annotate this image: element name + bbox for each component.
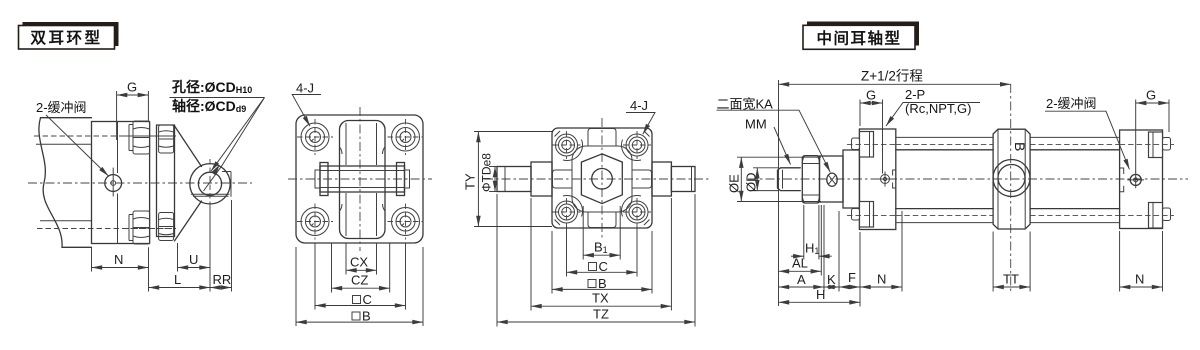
horizontal centerline xyxy=(484,178,710,180)
svg-text:B: B xyxy=(598,276,607,291)
KA leader xyxy=(717,110,831,172)
tie rod centerline over nuts bottom xyxy=(124,228,176,230)
rod nut MM xyxy=(802,156,819,203)
pin stub left xyxy=(315,170,320,188)
rod thread line xyxy=(782,170,784,189)
bolt hole bottom-right xyxy=(388,204,424,240)
svg-text:C: C xyxy=(599,259,608,274)
vertical centerline xyxy=(359,107,361,251)
tube inner line bottom xyxy=(40,220,92,222)
cylinder tube broken end xyxy=(39,118,62,248)
svg-text:二面宽KA: 二面宽KA xyxy=(717,97,774,112)
clevis plate xyxy=(157,125,175,237)
trunnion pin right xyxy=(671,167,695,192)
svg-text:中间耳轴型: 中间耳轴型 xyxy=(816,28,901,47)
svg-text:G: G xyxy=(1146,88,1156,103)
bolt hole top-left xyxy=(297,119,333,155)
clevis taper top xyxy=(175,126,202,167)
tube bottom edge xyxy=(62,246,92,248)
leader 4-J to bolt xyxy=(292,95,321,127)
bolt top-left xyxy=(553,131,581,159)
square head plate xyxy=(552,128,652,228)
title box shadow (double clevis) xyxy=(23,22,119,46)
svg-text:H1: H1 xyxy=(805,241,819,257)
dimension A xyxy=(779,205,825,292)
dimension N (cap side) xyxy=(1120,231,1163,292)
main centerline xyxy=(28,182,252,184)
svg-text:G: G xyxy=(866,88,876,103)
svg-text:轴径:ØCDd9: 轴径:ØCDd9 xyxy=(172,98,246,114)
bolt hole bottom-left xyxy=(297,204,333,240)
MM leader xyxy=(774,127,791,165)
svg-text:(Rc,NPT,G): (Rc,NPT,G) xyxy=(905,101,971,116)
dimension TT xyxy=(993,232,1030,292)
rod nut hexagon xyxy=(581,154,622,204)
tie rod nut column2 bottom xyxy=(159,213,174,241)
leader to pin hole xyxy=(211,98,265,172)
cushion valve inner xyxy=(111,181,116,186)
head block inner edge xyxy=(117,122,119,244)
title box shadow (center trunnion) xyxy=(807,22,919,46)
dimension ΦTDe8 xyxy=(480,153,506,192)
scallop arc top-left xyxy=(563,140,583,161)
dimension G xyxy=(117,80,149,141)
tie rod nut (rod head top) xyxy=(852,132,874,158)
tube inner line top xyxy=(36,143,92,145)
trunnion boss left xyxy=(531,162,552,196)
trunnion boss right xyxy=(652,162,671,196)
gland boss plate xyxy=(820,156,844,202)
tie rod nut column1 bottom xyxy=(129,211,150,244)
svg-text:A: A xyxy=(797,272,806,287)
intermediate plate xyxy=(843,150,860,208)
tie rod nut column2 top xyxy=(159,125,174,153)
2-P leader xyxy=(886,103,980,127)
tie rod centerline bottom xyxy=(37,228,174,230)
svg-text:4-J: 4-J xyxy=(296,81,314,96)
dimension AL xyxy=(779,205,822,276)
pin vertical centerline xyxy=(209,159,211,209)
title box (double clevis) xyxy=(19,26,115,50)
cap head cushion valve xyxy=(1127,172,1144,189)
svg-text:2-P: 2-P xyxy=(905,87,925,102)
cap head face notches xyxy=(1120,168,1124,192)
svg-text:N: N xyxy=(1135,272,1144,287)
cap head block xyxy=(1120,130,1163,229)
main centerline xyxy=(748,178,1188,180)
ear waist lines xyxy=(340,147,386,211)
dimension Z+1/2行程 xyxy=(779,69,1011,307)
dimension N xyxy=(92,247,149,291)
svg-text:TX: TX xyxy=(592,291,609,306)
svg-text:RR: RR xyxy=(213,272,232,287)
dimension G (rod head) xyxy=(860,88,883,174)
svg-text:ΦTDe8: ΦTDe8 xyxy=(480,153,494,192)
rod head block xyxy=(859,129,895,230)
trunnion pin circles xyxy=(993,160,1030,197)
svg-text:MM: MM xyxy=(745,117,767,132)
pin end cap right xyxy=(397,163,405,196)
vertical centerline xyxy=(601,118,603,240)
scallop arc top-right xyxy=(621,140,641,161)
tie rod centerline top xyxy=(34,135,174,137)
tie rod centerline through cap head xyxy=(1120,145,1174,216)
tie rod nut (rod head bottom) xyxy=(852,202,874,228)
svg-text:2-缓冲阀: 2-缓冲阀 xyxy=(36,100,87,115)
svg-text:C: C xyxy=(363,292,372,307)
svg-text:AL: AL xyxy=(792,256,808,271)
bolt hole top-right xyxy=(388,119,424,155)
svg-text:F: F xyxy=(848,270,856,285)
bottom tab xyxy=(588,212,616,228)
tie rod nut (cap head bottom) xyxy=(1149,203,1171,229)
dimension K xyxy=(824,211,839,292)
leader 4-J xyxy=(626,113,655,135)
svg-text:Z+1/2行程: Z+1/2行程 xyxy=(861,69,923,84)
title box (center trunnion) xyxy=(803,25,915,49)
trunnion collar xyxy=(993,129,1030,229)
dimension ØD xyxy=(744,168,780,192)
dimension N (rod side) xyxy=(860,211,902,307)
leader to pin shaft xyxy=(204,98,265,192)
collar facet lines xyxy=(998,129,1025,229)
rod wrench flats mark xyxy=(827,173,837,186)
tube/tie-rods left section xyxy=(896,137,993,222)
rod head port circle xyxy=(878,172,893,187)
pin end cap left xyxy=(320,163,328,196)
center boss blob xyxy=(572,146,632,212)
dimension □B xyxy=(296,247,423,326)
pin right end line xyxy=(691,167,693,192)
dimension H1 xyxy=(791,205,832,260)
dimension L xyxy=(149,272,211,288)
svg-text:CX: CX xyxy=(350,255,368,270)
svg-text:ØE: ØE xyxy=(727,174,742,193)
tie rod centerline through rod head xyxy=(847,145,896,216)
rod head face notches xyxy=(893,170,896,188)
dimension TX xyxy=(531,198,671,311)
svg-text:H: H xyxy=(816,287,825,302)
bolt bottom-left xyxy=(553,198,581,226)
right cushion leader xyxy=(1045,111,1130,169)
horizontal centerline xyxy=(288,178,432,180)
svg-text:TZ: TZ xyxy=(593,306,609,321)
svg-text:K: K xyxy=(827,272,836,287)
trunnion vertical centerline xyxy=(1010,84,1012,291)
dimension B1 xyxy=(583,206,620,260)
label underline xyxy=(170,97,265,99)
clevis ear edge lines xyxy=(191,172,231,197)
svg-text:4-J: 4-J xyxy=(630,98,648,113)
dimension □C (trunnion) xyxy=(567,226,638,277)
dimension H xyxy=(779,287,861,302)
clevis taper bottom xyxy=(175,201,202,241)
svg-text:2-缓冲阀: 2-缓冲阀 xyxy=(1046,96,1097,111)
bolt top-right xyxy=(623,131,651,159)
dimension □C xyxy=(315,243,406,310)
right tab xyxy=(632,170,652,188)
flange square plate xyxy=(296,115,423,243)
dimension F xyxy=(839,270,860,287)
dimension ØE xyxy=(727,157,822,201)
pin bar facet lines xyxy=(320,171,405,188)
dimension G (cap head) xyxy=(1136,88,1169,173)
svg-text:双耳环型: 双耳环型 xyxy=(30,29,102,47)
pin left end line xyxy=(504,167,506,192)
rod circle xyxy=(592,169,613,190)
svg-text:ØD: ØD xyxy=(744,173,759,193)
dimension TZ xyxy=(497,194,695,327)
tie rod centerline over nuts top xyxy=(124,135,176,137)
dimension U xyxy=(178,206,211,292)
tie rod nut (cap head top) xyxy=(1149,132,1171,158)
dimension TY xyxy=(463,132,553,227)
scallop arc bottom-right xyxy=(621,195,641,216)
tube/tie-rods right section xyxy=(1030,137,1120,222)
pin bar xyxy=(320,166,405,192)
svg-text:N: N xyxy=(877,272,886,287)
scallop arc bottom-left xyxy=(563,195,583,216)
tube top edge xyxy=(41,117,92,119)
ear slab inner edges xyxy=(346,123,377,236)
top tab xyxy=(588,129,616,147)
svg-text:U: U xyxy=(189,252,198,267)
trunnion pin left xyxy=(497,167,531,192)
svg-text:L: L xyxy=(174,272,181,287)
svg-text:B: B xyxy=(1012,142,1028,151)
dimension RR xyxy=(210,200,232,292)
svg-text:孔径:ØCDH10: 孔径:ØCDH10 xyxy=(172,79,252,95)
svg-text:CZ: CZ xyxy=(351,273,368,288)
svg-text:G: G xyxy=(127,80,137,95)
svg-text:B: B xyxy=(362,308,371,323)
left tab xyxy=(553,170,573,188)
clevis pin circle xyxy=(198,172,221,195)
dimension CZ xyxy=(332,243,390,293)
dimension CX xyxy=(346,243,377,275)
svg-text:N: N xyxy=(114,252,123,267)
corner chamfer ticks xyxy=(555,131,650,225)
bolt bottom-right xyxy=(623,198,651,226)
cushion valve tick vertical xyxy=(112,168,114,197)
pin stub right xyxy=(405,170,410,188)
clevis ear slab outline xyxy=(340,121,386,239)
svg-text:TT: TT xyxy=(1003,272,1019,287)
svg-text:TY: TY xyxy=(463,173,478,190)
dimension □B (trunnion) xyxy=(552,231,652,294)
head block xyxy=(92,122,150,244)
leader to cushion valve xyxy=(46,115,109,176)
piston rod xyxy=(778,168,801,191)
cushion valve circle xyxy=(105,175,122,192)
tie rod nut column1 top xyxy=(129,121,150,154)
clevis boss circle xyxy=(190,164,230,204)
svg-text:B1: B1 xyxy=(594,240,608,256)
